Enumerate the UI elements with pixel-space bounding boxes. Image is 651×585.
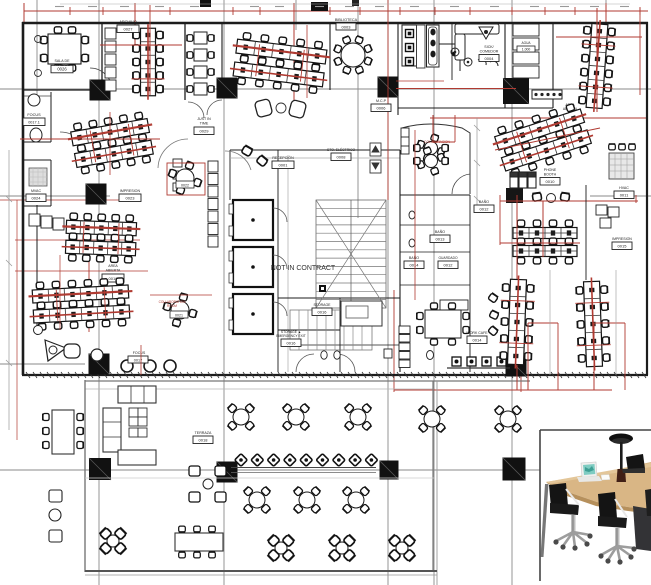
wall biblioteca x=330	[329, 24, 331, 90]
colaboracion 0009 room curved wall	[402, 124, 470, 194]
core wall x=288 light	[287, 155, 289, 372]
terrace sofa top	[118, 386, 156, 403]
column B1	[217, 78, 238, 99]
triangle table left	[45, 340, 66, 361]
photo desk left leg	[541, 484, 549, 557]
agua cabinets column	[513, 24, 539, 78]
column D4 (large)	[503, 458, 526, 481]
photo laptop screen	[581, 462, 597, 477]
terrace long table bottom	[175, 533, 223, 551]
red frame cluster A	[527, 323, 529, 390]
wall x=340 wc	[339, 298, 341, 372]
bottom-left cluster	[28, 277, 134, 330]
sala chairs	[41, 36, 48, 43]
svg-text:ARCHIVO: ARCHIVO	[119, 20, 136, 24]
outer wall right	[646, 22, 648, 375]
pantry shelf unit with rosettes	[402, 25, 417, 66]
archivo desk cluster	[132, 24, 165, 100]
focus room chairs	[28, 94, 40, 106]
svg-text:NOT IN CONTRACT: NOT IN CONTRACT	[271, 265, 336, 272]
door arc corridor x=225	[225, 151, 251, 170]
red vertical x=388 top	[387, 0, 389, 200]
photo chair 1 seat	[550, 503, 579, 515]
lockers column	[399, 326, 410, 368]
banos wall y=252	[400, 251, 470, 253]
red vertical x=415 core	[414, 130, 416, 300]
photo lamp stem	[620, 442, 623, 470]
grid line horizontal y=196 (right stub)	[590, 195, 651, 197]
svg-text:ABIERTA: ABIERTA	[106, 268, 121, 272]
storage marker icon	[319, 285, 326, 292]
svg-text:0012: 0012	[444, 263, 454, 268]
photo chair 1 back	[549, 483, 568, 508]
stairwell NOT IN CONTRACT	[316, 200, 386, 308]
wall y=108 mcp	[398, 107, 553, 109]
terrace top line	[85, 380, 530, 382]
grid line horizontal y=89	[0, 88, 651, 90]
grid line vertical x=434	[433, 0, 435, 585]
svg-text:0014: 0014	[473, 338, 483, 343]
grid line vertical x=99	[98, 0, 100, 585]
terrace chair row	[231, 454, 378, 473]
grid line vertical x=37 (left stub)	[36, 0, 38, 95]
grid line horizontal y=364 (left stub)	[0, 363, 85, 365]
wall y=345 toilets	[300, 344, 400, 346]
printer boxes	[173, 159, 182, 191]
svg-text:TIME: TIME	[200, 121, 209, 125]
svg-text:FOCUS: FOCUS	[27, 113, 41, 117]
terrace 4-armchair group left	[189, 466, 226, 502]
biblioteca table	[334, 36, 373, 75]
photo desk right dark panel	[633, 506, 651, 551]
photo chair 3 partial right edge	[645, 489, 651, 516]
grid line horizontal y=470	[0, 469, 540, 471]
mid-left cluster 2	[61, 213, 141, 264]
red vertical x=517 right side	[516, 195, 518, 390]
svg-text:WORK CAFE: WORK CAFE	[466, 331, 488, 335]
pod room 1	[233, 200, 273, 240]
banos wall y=285	[400, 284, 470, 286]
terrace left wall	[84, 380, 86, 572]
door arc left	[60, 132, 88, 160]
gray dimension verticals clusters	[549, 270, 551, 375]
photo chair 1 armrest	[566, 489, 579, 505]
svg-text:MVAC: MVAC	[31, 189, 42, 193]
svg-text:0006: 0006	[377, 106, 387, 111]
terrace inner light line y=478	[85, 477, 435, 479]
svg-text:PHONE: PHONE	[544, 168, 557, 172]
photo desk front edge shade	[546, 482, 651, 514]
svg-text:STORAGE: STORAGE	[313, 303, 331, 307]
printer boxes impresion 0015	[596, 205, 619, 228]
svg-text:0016: 0016	[318, 310, 328, 315]
tall cabinet column x=213	[208, 161, 218, 247]
svg-text:0004: 0004	[485, 56, 495, 61]
small meeting tables column x=203	[194, 32, 207, 95]
terrace tables bottom row large chairs	[267, 534, 294, 561]
red line left y=271	[15, 270, 148, 272]
red frame cluster B	[593, 323, 595, 390]
svg-text:AREA: AREA	[108, 264, 118, 268]
red horizontal y=81 segment	[396, 80, 444, 82]
left sofa blob	[34, 326, 43, 335]
red vertical through top-right cluster	[596, 8, 598, 112]
svg-text:TERRAZA: TERRAZA	[195, 431, 212, 435]
red line left y=200	[0, 199, 140, 201]
red horizontal y=88.5 right of column	[396, 88, 516, 90]
svg-text:JUST IN: JUST IN	[197, 117, 211, 121]
column B4	[217, 462, 238, 483]
red ticks on top dimension line	[70, 7, 640, 15]
sala de trabajo table	[48, 34, 81, 64]
red tick x=135 top	[134, 3, 136, 46]
terrace left armchairs column	[49, 490, 62, 542]
wall sala/archivo x=102	[101, 24, 103, 90]
lounge armchair 1	[64, 344, 80, 358]
svg-text:0017.1: 0017.1	[28, 121, 40, 125]
right cluster (horizontal, double bench)	[513, 220, 577, 264]
svg-text:0022: 0022	[181, 183, 189, 187]
core wall x=400 vertical	[399, 150, 401, 372]
reception chairs	[241, 145, 253, 156]
red tick x=24 top	[23, 3, 25, 24]
wall x=452 top	[451, 24, 453, 80]
svg-text:0014: 0014	[410, 263, 420, 268]
wall sala bottom y=90	[24, 89, 102, 91]
svg-text:1.000: 1.000	[522, 48, 531, 52]
top edge mark 2	[311, 2, 328, 11]
phone booths	[510, 172, 536, 188]
chairs row right	[609, 144, 616, 150]
waiting lounge pair near reception	[254, 98, 273, 117]
svg-text:0003: 0003	[342, 24, 352, 29]
corridor line y=158 light	[230, 157, 400, 159]
svg-text:BAÑO: BAÑO	[479, 199, 489, 204]
pantry counter column	[417, 25, 426, 68]
svg-text:IMPRESION: IMPRESION	[612, 237, 632, 241]
collaboration room 2 table	[163, 293, 197, 327]
red tick x=294 top	[293, 3, 295, 100]
pantry room corner wall	[439, 43, 460, 45]
terrace sofa 2	[118, 450, 156, 465]
wall pantry x=398	[397, 24, 399, 115]
wall x=222 top	[221, 24, 223, 97]
terrace long table left	[52, 410, 74, 454]
photo frame border	[539, 430, 541, 581]
stair lower flight	[290, 310, 372, 350]
red vertical x=110 left cluster	[109, 112, 111, 175]
reception wall y=150	[230, 149, 400, 151]
svg-text:CTO. ELÉCTRICO: CTO. ELÉCTRICO	[327, 147, 356, 152]
photo chair 1 column	[571, 515, 576, 532]
photo chair 2 armrest	[615, 499, 627, 517]
column A1	[90, 80, 111, 101]
wall x=586 right	[585, 185, 587, 280]
door arcs middle top	[188, 102, 204, 118]
svg-text:0024: 0024	[32, 196, 42, 201]
svg-text:COMEDOR: COMEDOR	[480, 49, 499, 53]
door arcs left corridor	[158, 139, 188, 168]
column A4	[89, 458, 111, 480]
colaboracion 0009 door arc	[452, 174, 470, 194]
dark cabinet right side	[506, 188, 523, 203]
svg-text:SICK/: SICK/	[484, 45, 493, 49]
bottom-right cluster A	[498, 275, 535, 369]
wall cabinet x=400	[401, 128, 409, 154]
banos wall y=195	[400, 194, 470, 196]
wall y=330 storage south	[278, 329, 340, 331]
photo desk top	[546, 462, 651, 510]
svg-text:0010: 0010	[546, 179, 556, 184]
terrace round tables row 1	[227, 403, 254, 430]
pod room 2	[233, 247, 273, 287]
svg-text:M.C.P: M.C.P	[376, 99, 387, 103]
reception wall x=230	[229, 150, 231, 200]
svg-text:RECEPCIÓN: RECEPCIÓN	[272, 155, 294, 160]
column C1	[378, 77, 399, 98]
archivo shelving	[105, 28, 116, 91]
door arc storage 2	[337, 354, 355, 372]
red dimension line bottom y=390	[394, 389, 612, 391]
comedor triangle table	[479, 27, 493, 39]
red vertical near right border top	[639, 8, 641, 95]
terrace small table grid	[129, 408, 147, 437]
photo notepad	[601, 475, 610, 481]
grid line vertical x=224	[223, 0, 225, 585]
door arc sala	[90, 68, 112, 90]
svg-text:0013: 0013	[436, 237, 446, 242]
svg-text:TRABAJO: TRABAJO	[54, 63, 71, 67]
terrace bottom wall	[85, 570, 437, 572]
comedor sofa L	[455, 24, 499, 60]
photo laptop base	[577, 476, 602, 482]
wall archivo right x=185	[184, 24, 186, 100]
left wall cabinets	[29, 214, 64, 230]
top-middle desk cluster	[228, 31, 332, 94]
photo chair 2 base	[601, 546, 634, 561]
svg-text:IMPRESION: IMPRESION	[120, 189, 141, 193]
red box colaboracion	[167, 163, 205, 195]
svg-text:BIBLIOTECA: BIBLIOTECA	[335, 18, 358, 22]
column D1 (large)	[503, 78, 529, 104]
photo chair 2 seat	[598, 516, 627, 528]
red tick x=606 top	[605, 3, 607, 40]
red tick x=521 bottom	[520, 281, 522, 392]
grid line vertical x=296 (top stub)	[295, 0, 297, 30]
red marks collab2	[150, 294, 212, 296]
red tick focus	[140, 345, 142, 375]
photo lamp head	[609, 434, 633, 444]
column C4	[380, 461, 399, 480]
red verticals bottom-left cluster	[59, 255, 61, 330]
work cafe tables	[425, 310, 461, 338]
dimension line x=477	[474, 118, 480, 205]
photo chair 1 base	[556, 532, 590, 547]
center-right desk cluster (angled)	[489, 101, 598, 180]
svg-text:0015: 0015	[618, 244, 628, 249]
terrace right wall	[432, 381, 434, 572]
svg-text:0001: 0001	[279, 163, 289, 168]
label sala de trabajo 0026	[51, 65, 73, 73]
work cafe stools row	[447, 357, 510, 368]
svg-text:0008: 0008	[337, 155, 347, 160]
lounge pair just-in-time	[532, 192, 542, 201]
mvac hatch square	[29, 168, 47, 186]
grid line vertical x=358 (top)	[357, 0, 359, 218]
bottom-right cluster B	[574, 277, 611, 371]
column D3 (large)	[506, 356, 527, 377]
red line left cluster	[20, 138, 160, 140]
elevator icons	[370, 143, 381, 173]
svg-text:AGUA: AGUA	[521, 41, 531, 45]
red dimension line top y=11	[24, 10, 648, 12]
focus room walls	[50, 92, 52, 142]
svg-text:0012: 0012	[480, 207, 490, 212]
wall x=505 top	[504, 24, 506, 108]
colaboracion 0009 side chairs	[414, 144, 420, 151]
door arc storage 1	[296, 354, 314, 372]
svg-text:0011: 0011	[620, 193, 629, 198]
svg-text:0023: 0023	[126, 196, 136, 201]
colaboracion round table	[168, 161, 202, 195]
red vertical x=89 left clusters	[88, 213, 90, 332]
core wall x=278	[277, 150, 279, 372]
photo chair 2 column	[615, 528, 620, 546]
bar table with stools	[532, 90, 562, 99]
red line left y=240	[15, 239, 140, 241]
outer wall bottom hatch band	[26, 372, 646, 378]
mvac room walls	[50, 160, 52, 206]
svg-text:EMERGENCY EXIT: EMERGENCY EXIT	[276, 334, 305, 338]
grid line horizontal y=196 (left stub)	[0, 195, 110, 197]
top edge mark 1	[200, 0, 211, 7]
wall y=298 storage	[278, 297, 400, 299]
svg-text:GUARDADO: GUARDADO	[438, 256, 457, 260]
column A2	[86, 184, 107, 205]
svg-text:HVAC: HVAC	[619, 186, 629, 190]
top edge mark 3	[352, 0, 359, 6]
column A3	[89, 354, 110, 375]
outer wall left	[22, 22, 25, 375]
dimension line left x=9	[6, 150, 12, 430]
red vertical x=307 top cluster	[306, 25, 308, 98]
red line archivo y=45	[100, 44, 182, 46]
lounge ottoman	[91, 349, 103, 361]
sala columns circles	[35, 36, 42, 43]
focus 0017 stools	[121, 360, 176, 372]
svg-text:ROOM: ROOM	[167, 304, 177, 308]
red overlay right cluster	[542, 201, 544, 257]
banos wall y=225	[400, 224, 470, 226]
chairs column right of pods	[488, 293, 498, 303]
grid line vertical x=388	[387, 0, 389, 585]
comedor chairs	[451, 48, 459, 56]
svg-text:0026: 0026	[57, 67, 67, 72]
terrace round table bottom-left	[99, 527, 126, 554]
colaboracion 0009 tables	[417, 134, 446, 163]
hvac hatch unit	[609, 153, 634, 179]
outer wall top	[22, 22, 648, 25]
svg-text:BAÑO: BAÑO	[435, 229, 445, 234]
banos wall x=470	[469, 195, 471, 372]
grid line vertical x=606 (top stub)	[605, 0, 607, 30]
red line archivo x=150	[149, 5, 151, 95]
svg-text:0016: 0016	[287, 341, 297, 346]
red line top-right y=37	[556, 36, 642, 38]
red overlay center cluster	[495, 128, 600, 150]
wall x=553 top	[552, 24, 554, 108]
terrace round tables row 2	[243, 486, 270, 513]
top-right desk cluster	[577, 19, 617, 113]
wall x=37 left corridor	[36, 205, 38, 335]
photo far laptop	[626, 454, 645, 471]
kitchen counter	[341, 301, 382, 326]
grid line vertical x=512	[511, 0, 513, 585]
gray top dimension line	[60, 3, 630, 5]
svg-text:0021: 0021	[175, 313, 183, 317]
photo chair 2 back	[598, 492, 617, 520]
outer wall bottom band	[22, 374, 648, 376]
svg-text:0018: 0018	[199, 438, 209, 443]
terrace vertical sofa	[103, 408, 121, 452]
red vertical left x=17	[16, 200, 18, 440]
pantry fridge unit	[427, 25, 440, 67]
red tick x=394 bottom	[393, 290, 395, 392]
svg-text:0027: 0027	[124, 27, 134, 32]
gray dimension dashes top	[55, 6, 629, 8]
toilet icons storage zone	[321, 351, 327, 359]
svg-text:BOOTH: BOOTH	[544, 172, 557, 176]
pod room 3	[233, 294, 273, 334]
big left cluster (angled)	[65, 111, 158, 176]
svg-text:FOCUS: FOCUS	[133, 351, 146, 355]
red dimension line y=118 right half	[430, 117, 648, 119]
svg-text:BAÑO: BAÑO	[409, 255, 419, 260]
photo lamp base	[617, 469, 627, 482]
toilet icons	[409, 211, 415, 219]
svg-text:0029: 0029	[200, 129, 210, 134]
